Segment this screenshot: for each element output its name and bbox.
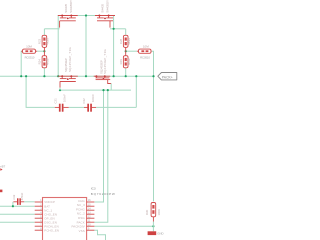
svg-text:IC3: IC3 (91, 186, 96, 190)
svg-text:100nF: 100nF (63, 94, 67, 102)
wire C33 left to BAT row (12, 202, 14, 206)
wire main bus y=76.2 (0, 75, 154, 77)
svg-text:SQJ453EP_T1G: SQJ453EP_T1G (68, 47, 72, 72)
svg-text:SI4435: SI4435 (100, 3, 104, 12)
wire chain bottom stub left (43, 68, 45, 77)
svg-text:R28: R28 (119, 38, 123, 44)
node gate wire pin11 tap (107, 89, 109, 91)
wire 10M left link (37, 50, 44, 52)
wire cap branch left x=26.1 (26, 76, 55, 107)
transistor Q8 (bottom-right MOSFET) (94, 75, 112, 90)
wire IC row6 DSG_EN (0, 221, 35, 223)
resistor R29 (right chain bottom) (123, 51, 128, 68)
wire PACK to cap string x=136.3 (135, 76, 137, 107)
wire 10M right to corner (152, 51, 154, 76)
node top rail mid (85, 14, 87, 16)
resistor R24 (left chain bottom) (42, 51, 47, 68)
wire to pin11 PACK (94, 90, 107, 222)
wire chain top stub left (43, 29, 45, 36)
svg-text:GND: GND (157, 232, 163, 236)
label C31 (54, 94, 161, 216)
IC U1 BQ76200PW box (43, 198, 87, 240)
wire chain top stub right (125, 29, 127, 36)
IC left pins (35, 202, 43, 230)
wire vertical left FET drain/gate bus x=58.2 (57, 16, 59, 77)
svg-text:R29: R29 (119, 59, 123, 65)
node bus-x115 (113, 75, 115, 77)
wire chain bottom stub right (125, 68, 127, 77)
net flag PACK+ (158, 73, 177, 80)
wire CHG drive down to pin16 (95, 90, 104, 202)
wire vertical right x=113.6 (113, 16, 115, 77)
svg-text:SI4435DY: SI4435DY (69, 0, 73, 13)
wire gate link right y=28.8 (110, 28, 126, 30)
wire vertical mid rail x=86 (85, 16, 87, 77)
wire 10M left to corner (21, 51, 23, 76)
svg-text:10M: 10M (26, 45, 32, 49)
node gate wire pin16 tap (102, 89, 104, 91)
node bus-PACK (152, 75, 154, 77)
svg-text:R24: R24 (38, 59, 42, 65)
node bus-x86 (85, 75, 87, 77)
transistor Q7 (top-right MOSFET) (95, 15, 115, 28)
svg-text:+BT: +BT (0, 164, 5, 168)
wire 10M right link (126, 50, 137, 52)
svg-text:4K99: 4K99 (127, 38, 131, 45)
svg-text:100nF: 100nF (91, 94, 95, 102)
svg-text:RC0510: RC0510 (140, 56, 150, 60)
capacitor C31 (55, 104, 69, 112)
label R23/4K99 left top (38, 38, 131, 65)
capacitor C33 (VDDCP) (13, 198, 24, 205)
resistor R25 (10M left) (21, 49, 37, 53)
node gate wire left end (59, 89, 61, 91)
wire PACK net down x=153.5 (153, 76, 155, 201)
ground symbol (148, 226, 157, 235)
svg-text:SQJ453EP_T1G: SQJ453EP_T1G (103, 49, 107, 74)
svg-text:C32: C32 (82, 98, 86, 104)
transistor Q5 (top-left MOSFET) (58, 15, 78, 28)
svg-text:PACK+: PACK+ (162, 76, 173, 80)
svg-text:R23: R23 (38, 38, 42, 44)
wire caps to right corner (96, 106, 136, 108)
IC pin numbers (40, 200, 91, 230)
wire VSS pin9 jog (94, 230, 105, 240)
node bus-10M left (20, 75, 22, 77)
transistor Q6 (bottom-left MOSFET) (58, 75, 78, 90)
node PACKDIV-GND (152, 225, 154, 227)
IC pin name labels (44, 199, 85, 233)
svg-text:SI4435DY: SI4435DY (105, 0, 109, 13)
svg-text:470nF: 470nF (20, 192, 24, 200)
svg-text:4K99: 4K99 (127, 58, 131, 65)
edge component top (0, 168, 3, 171)
resistor R27 (10M right) (137, 49, 152, 53)
node bus-cap right (135, 75, 137, 77)
wire gate bus y=90.1 (60, 89, 131, 91)
svg-text:4K99: 4K99 (46, 58, 50, 65)
svg-text:4K99: 4K99 (46, 38, 50, 45)
svg-text:PCHG_EN: PCHG_EN (44, 228, 59, 232)
wire IC row2 BAT (0, 205, 35, 207)
wire IC row1 VDDCP from C33 (24, 201, 35, 203)
svg-text:BQ76200PW: BQ76200PW (91, 192, 116, 196)
battery edge stub component (0, 190, 2, 193)
resistor R23 (left chain top, 4K99) (42, 35, 47, 51)
svg-text:R30: R30 (145, 209, 149, 215)
wire gate link left y=28.8 (44, 28, 59, 30)
node bus-chain left (43, 75, 45, 77)
svg-text:C31: C31 (54, 98, 58, 104)
wire IC row4 CHG_EN (0, 213, 35, 215)
node right gate T (113, 28, 115, 30)
node bus-cap branch (25, 75, 27, 77)
svg-text:100K: 100K (157, 209, 161, 216)
IC right pins (87, 202, 95, 230)
svg-text:VSS: VSS (79, 229, 85, 233)
wire top rail between FETs (78, 15, 95, 17)
node chain left mid (43, 50, 45, 52)
svg-text:10M: 10M (143, 45, 149, 49)
svg-text:SI4435: SI4435 (64, 3, 68, 12)
label Q5 SI4435 top-left FET (64, 0, 109, 74)
node bus-chain right (125, 75, 127, 77)
svg-text:C33: C33 (12, 194, 16, 199)
node chain right mid (125, 50, 127, 52)
resistor R30 (PACK divider) (151, 203, 156, 227)
node BAT row (12, 205, 14, 207)
capacitor C32 (84, 104, 96, 112)
wire PACKDIV pin10 to divider (94, 225, 153, 227)
svg-text:RC0510: RC0510 (25, 56, 35, 60)
node bus-x58 (57, 75, 59, 77)
wire between caps (69, 106, 84, 108)
resistor R28 (right chain top) (123, 35, 128, 51)
